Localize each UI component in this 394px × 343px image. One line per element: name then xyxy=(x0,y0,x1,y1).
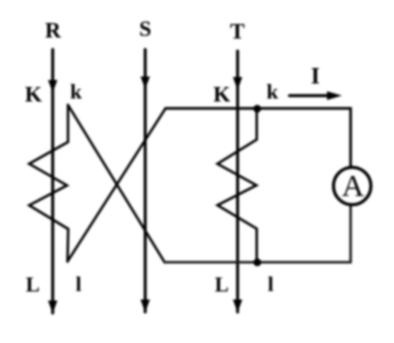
phase wire R xyxy=(51,50,54,314)
svg-text:k: k xyxy=(70,80,82,104)
svg-text:S: S xyxy=(139,16,151,41)
svg-text:L: L xyxy=(215,272,229,296)
svg-text:I: I xyxy=(311,64,320,89)
svg-text:T: T xyxy=(230,18,245,43)
svg-text:l: l xyxy=(76,272,82,296)
phase wire S xyxy=(144,50,147,313)
svg-text:k: k xyxy=(266,80,278,104)
svg-text:A: A xyxy=(342,168,365,203)
current arrow I shaft xyxy=(290,94,331,97)
svg-text:K: K xyxy=(213,82,230,107)
phase wire T xyxy=(236,51,239,312)
current arrow on S (bottom) xyxy=(141,300,150,313)
current arrow on T (mid) xyxy=(233,77,242,90)
svg-text:L: L xyxy=(26,273,40,297)
current arrow on T (bottom) xyxy=(233,300,242,313)
svg-text:R: R xyxy=(45,17,62,42)
junction dot l2 (CT2 bottom terminal) xyxy=(253,259,261,267)
svg-text:l: l xyxy=(268,272,274,296)
current arrow I head xyxy=(327,91,342,100)
svg-text:K: K xyxy=(25,82,42,107)
current arrow on S (mid) xyxy=(141,77,150,90)
CT1 secondary winding (on phase R) xyxy=(29,105,68,262)
current arrow on R (mid) xyxy=(48,80,57,93)
current arrow on R (bottom) xyxy=(48,301,57,314)
bottom bus wire xyxy=(165,205,351,262)
CT2 secondary winding (on phase T) xyxy=(218,109,257,261)
crossover wire: CT1 terminal l to top bus xyxy=(68,108,166,261)
ammeter A1 body xyxy=(334,167,371,204)
top bus wire xyxy=(166,108,351,167)
junction dot k2 (CT2 top terminal) xyxy=(253,105,261,113)
crossover wire: CT1 terminal k to bottom bus xyxy=(68,105,165,262)
